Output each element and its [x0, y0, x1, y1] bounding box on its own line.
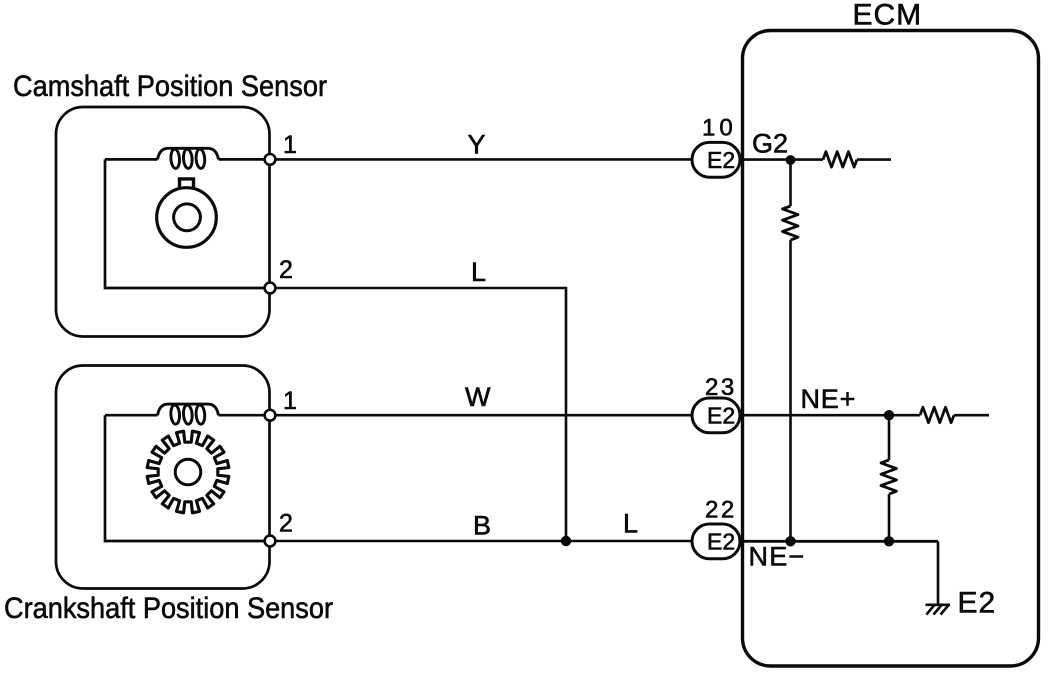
resistor R2 (G2 pull, vertical) — [783, 206, 799, 240]
svg-text:NE−: NE− — [749, 542, 806, 572]
node G2 — [786, 155, 796, 165]
connector E2 pin 22 oval — [692, 524, 740, 559]
svg-text:W: W — [465, 382, 491, 412]
wire: resistor R2 to NE- rail — [789, 240, 792, 541]
svg-text:2: 2 — [279, 510, 293, 538]
svg-text:Y: Y — [468, 130, 486, 160]
ground symbol E2 — [926, 605, 951, 615]
svg-text:23: 23 — [705, 374, 737, 401]
camshaft sensor rotor — [157, 179, 217, 247]
svg-text:E2: E2 — [707, 529, 735, 555]
wire NE- rail (oval to ground branch) — [740, 540, 938, 543]
wire: crankshaft coil to pin 1 — [219, 414, 265, 417]
wire G2 (oval to node to resistor) — [740, 158, 823, 161]
wire: camshaft inner loop left/bottom — [105, 159, 265, 288]
terminal pin 2 (crankshaft) — [265, 536, 276, 547]
wire L (camshaft pin2, turns down) — [275, 288, 566, 541]
connector E2 pin 23 oval — [692, 398, 740, 433]
inductor coil (crankshaft pickup) — [158, 404, 219, 424]
node NE+ — [884, 410, 894, 420]
svg-text:E2: E2 — [707, 147, 735, 173]
ECM box — [743, 31, 1039, 667]
svg-text:Camshaft Position Sensor: Camshaft Position Sensor — [13, 70, 327, 103]
wire: camshaft coil lead-in — [105, 158, 158, 161]
svg-text:NE+: NE+ — [801, 384, 857, 414]
wire: crankshaft coil lead-in — [105, 414, 158, 417]
resistor R4 (NE+/NE- vertical) — [881, 460, 897, 494]
connector E2 pin 10 oval — [692, 142, 740, 177]
svg-text:1: 1 — [283, 131, 297, 159]
camshaft position sensor box — [56, 107, 270, 337]
wire: NE- rail down to ground — [937, 541, 940, 604]
wire after resistor R1 — [857, 158, 891, 161]
svg-text:E2: E2 — [958, 587, 997, 620]
wire: camshaft coil to pin 1 — [219, 158, 265, 161]
svg-text:ECM: ECM — [853, 0, 923, 32]
terminal pin 2 (camshaft) — [265, 283, 276, 294]
wire: crankshaft inner loop left/bottom — [105, 415, 265, 541]
svg-text:2: 2 — [279, 256, 293, 284]
svg-text:Crankshaft Position Sensor: Crankshaft Position Sensor — [4, 592, 333, 625]
wire B (crankshaft pin2 to junction) — [275, 540, 566, 543]
wire W (crankshaft pin1 to ECM E2-23) — [275, 414, 692, 417]
resistor R1 (G2 series) — [823, 152, 857, 168]
wire: G2 node down to NE- rail — [789, 160, 792, 206]
svg-text:22: 22 — [705, 497, 737, 524]
wire: resistor R4 to NE- rail — [888, 494, 891, 541]
wire NE+ (oval to node to resistor) — [740, 414, 920, 417]
svg-text:10: 10 — [702, 115, 737, 142]
crankshaft position sensor box — [56, 366, 270, 589]
node NE- / G2 pull — [785, 536, 795, 546]
wire: NE+ node down to resistor R4 — [888, 415, 891, 460]
svg-text:L: L — [623, 509, 638, 539]
svg-text:E2: E2 — [707, 403, 735, 429]
wire after resistor R3 — [954, 414, 989, 417]
svg-text:B: B — [473, 511, 491, 541]
wire Y (camshaft pin1 to ECM E2-10) — [275, 158, 692, 161]
inductor coil (camshaft pickup) — [158, 148, 219, 168]
crankshaft gear hub circle — [175, 459, 201, 485]
junction node (L/B wires) — [561, 536, 571, 546]
svg-text:G2: G2 — [752, 129, 788, 159]
wire L (junction to ECM E2-22) — [566, 540, 692, 543]
svg-text:1: 1 — [283, 387, 297, 415]
terminal pin 1 (camshaft) — [265, 154, 276, 165]
svg-text:L: L — [471, 257, 486, 287]
resistor R3 (NE+ series) — [920, 407, 954, 423]
node NE- / R4 — [884, 536, 894, 546]
terminal pin 1 (crankshaft) — [265, 410, 276, 421]
crankshaft trigger gear — [147, 431, 229, 513]
